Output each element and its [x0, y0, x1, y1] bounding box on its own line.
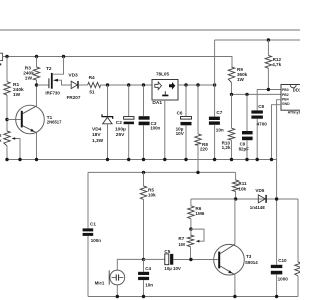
resistor R11	[232, 180, 238, 192]
wire DA1 output 5V	[178, 84, 215, 86]
svg-text:T2: T2	[46, 66, 52, 72]
svg-text:C6: C6	[177, 110, 183, 115]
rail junction (7,159.5)	[5, 158, 8, 161]
svg-text:C1: C1	[90, 221, 96, 226]
svg-text:25V: 25V	[116, 132, 125, 138]
wire C1 to bottom rail	[87, 236, 89, 297]
node junction (198,85)	[196, 83, 199, 86]
transistor T1 base bar	[21, 111, 23, 128]
wire T3 collector riser	[234, 199, 236, 244]
DA1 input arrow (hollow)	[155, 82, 162, 90]
rail junction (117.3,296.5)	[116, 295, 119, 298]
zener diode VD4	[107, 85, 109, 116]
svg-text:100n: 100n	[150, 126, 160, 131]
resistor R2 (trimmer, label cut at edge)	[4, 131, 10, 146]
capacitor C9	[246, 94, 248, 131]
wire R4 to DA1 input	[101, 84, 152, 86]
wire T2 source	[58, 80, 72, 85]
transistor T2 channel bar	[51, 73, 53, 89]
svg-text:18V: 18V	[92, 132, 101, 138]
transistor T3 emitter lead	[220, 266, 235, 275]
wire mains line to R9	[3, 57, 232, 68]
C3 plates	[139, 116, 150, 120]
wire PB4 pin down to C10	[277, 100, 281, 265]
node junction (235.6,199)	[234, 197, 237, 200]
C2 bottom plate	[124, 122, 134, 125]
wire C5 to base node	[173, 259, 218, 261]
svg-text:S9014: S9014	[245, 260, 258, 265]
svg-text:68k: 68k	[0, 138, 2, 144]
svg-text:1M6: 1M6	[195, 211, 204, 216]
svg-text:10k: 10k	[148, 192, 156, 197]
wire 5V top distribution	[215, 39, 300, 41]
svg-text:R1: R1	[13, 82, 19, 88]
wire T1 base lead	[7, 119, 21, 121]
capacitor C5 (electrolytic)	[165, 254, 169, 265]
node junction (276.6,199)	[275, 197, 278, 200]
resistor R1	[4, 82, 10, 95]
svg-text:51: 51	[89, 90, 95, 96]
terminal X1 (cut at left edge)	[0, 53, 3, 60]
wire C8 top to PB0	[257, 90, 281, 111]
microphone Mic1	[110, 270, 125, 285]
svg-text:240k: 240k	[13, 87, 24, 93]
wire C3 to rail	[143, 125, 145, 159]
svg-text:10µ 10V: 10µ 10V	[164, 266, 181, 271]
transistor T2 gate bar	[48, 78, 49, 88]
svg-text:10V: 10V	[176, 131, 185, 136]
capacitor C10	[271, 265, 283, 268]
svg-text:R3: R3	[25, 66, 31, 72]
svg-text:GND: GND	[282, 102, 290, 106]
svg-text:VD3: VD3	[68, 72, 78, 78]
svg-text:ATtiny13A: ATtiny13A	[288, 110, 300, 114]
transistor T3 base bar	[218, 252, 220, 269]
node junction (36.5,56.5)	[35, 55, 38, 58]
transistor T1 emitter lead	[23, 126, 37, 133]
wire center column x=36.5	[36, 57, 38, 160]
wire C7 to rail	[214, 125, 216, 160]
resistor R10	[231, 94, 233, 128]
svg-text:C2: C2	[116, 120, 122, 126]
transistor T3 circle	[214, 244, 245, 275]
node junction (268.4,89.5)	[267, 88, 270, 91]
capacitor C2 (electrolytic)	[128, 85, 130, 116]
capacitor C3	[143, 85, 145, 116]
ground rail	[7, 159, 277, 161]
resistor R9	[228, 67, 234, 83]
svg-text:1000: 1000	[278, 277, 289, 282]
diode VD3	[71, 81, 77, 88]
wire C8 bottom to rail	[256, 119, 258, 160]
rail junction (186,159.5)	[184, 158, 187, 161]
node junction (231.5,94.4)	[230, 93, 233, 96]
svg-text:2N6517: 2N6517	[47, 120, 62, 125]
rail junction (276.6,296.5)	[275, 295, 278, 298]
rail junction (107.5,159.5)	[106, 158, 109, 161]
voltage regulator DA1 box	[152, 80, 178, 101]
R2 wiper arrowhead	[12, 137, 16, 140]
svg-text:1,3W: 1,3W	[92, 138, 104, 144]
svg-text:100µ: 100µ	[115, 126, 126, 132]
Mic1 left bar	[108, 270, 110, 284]
rail junction (164.8,159.5)	[163, 158, 166, 161]
node junction gate (36.5,85)	[35, 83, 38, 86]
DA1 output arrow (solid)	[169, 82, 175, 90]
transistor T1 circle	[16, 105, 45, 134]
rail junction (20,159.5)	[18, 158, 21, 161]
svg-text:T3: T3	[246, 254, 252, 259]
T1 emitter arrowhead	[30, 129, 34, 132]
wire left column x=7	[6, 57, 8, 160]
rail junction (143.5,296.5)	[142, 295, 145, 298]
wire R8 to amp rail (crosses ground rail)	[197, 145, 199, 172]
rail junction (231.5,159.5)	[230, 158, 233, 161]
VD4 triangle	[103, 117, 113, 124]
svg-text:VD5: VD5	[255, 188, 264, 193]
svg-text:1W: 1W	[237, 77, 245, 82]
svg-text:FR207: FR207	[67, 95, 81, 100]
capacitor C6 (electrolytic)	[185, 85, 187, 116]
wire Mic1 top to signal node	[117, 259, 143, 270]
wire collector node line y=199	[191, 198, 298, 200]
svg-text:PB0: PB0	[282, 88, 289, 92]
node junction (268.4,40)	[267, 38, 270, 41]
bottom ground rail	[88, 296, 298, 298]
svg-text:10n: 10n	[216, 127, 224, 132]
node junction (128.7,85)	[127, 83, 130, 86]
node junction (143.5,172.4)	[142, 171, 145, 174]
svg-text:1W: 1W	[25, 76, 33, 82]
rail junction (234.9,296.5)	[233, 295, 236, 298]
svg-text:DA1: DA1	[152, 100, 162, 106]
terminal X1 label (cut)	[0, 63, 1, 65]
diode VD5	[258, 195, 265, 203]
wire C6 to rail	[185, 125, 187, 159]
wire amp rail left drop to C1	[87, 172, 89, 228]
wire T2 gate lead	[37, 84, 49, 86]
amp supply rail	[88, 171, 236, 173]
svg-text:IRF730: IRF730	[45, 90, 60, 95]
svg-text:C4: C4	[145, 266, 151, 271]
svg-text:DD1: DD1	[293, 87, 300, 92]
R7 wiper arrowhead	[196, 240, 200, 243]
transistor T1 collector lead	[23, 106, 37, 114]
node junction (143.5,85)	[142, 83, 145, 86]
wire top mains rail	[0, 29, 300, 31]
svg-text:10k: 10k	[238, 186, 246, 191]
wire T2 drain	[53, 57, 64, 75]
svg-text:C10: C10	[278, 258, 287, 263]
node junction (63.5,56.5)	[62, 55, 65, 58]
capacitor C8	[251, 110, 263, 113]
resistor R6	[188, 206, 194, 219]
rail junction (143.5,159.5)	[142, 158, 145, 161]
T2 source arrowhead	[53, 79, 58, 82]
wire VD4 to ground rail	[107, 124, 109, 160]
svg-text:78L05: 78L05	[156, 72, 169, 77]
wire PB2 line	[232, 93, 282, 95]
rail junction (271.5,159.5)	[270, 158, 273, 161]
rail junction (257.2,159.5)	[256, 158, 259, 161]
wire amp rail right drop to R11	[235, 172, 237, 180]
wire VD3 to R4	[79, 84, 88, 86]
wire GND pin	[272, 105, 282, 160]
C6 top plate (hollow)	[181, 117, 192, 120]
rail junction (128.7,159.5)	[127, 158, 130, 161]
wire signal to C5	[144, 258, 165, 260]
svg-text:C8: C8	[258, 104, 264, 109]
node junction (7,56.5)	[5, 55, 8, 58]
Mic1 inner plates	[112, 277, 124, 279]
svg-text:1M: 1M	[178, 242, 185, 247]
svg-text:1n4148: 1n4148	[250, 205, 265, 210]
wire DA1 ground lead	[164, 100, 166, 160]
svg-text:R2: R2	[0, 133, 2, 139]
svg-text:100n: 100n	[91, 238, 102, 243]
node junction (186,85)	[184, 83, 187, 86]
svg-text:C5: C5	[164, 249, 170, 254]
wire C2 to rail	[128, 124, 130, 159]
C2 top plate (hollow)	[124, 117, 134, 120]
svg-text:82pF: 82pF	[239, 147, 250, 152]
resistor R12	[267, 40, 269, 55]
wire R7 wiper loop	[191, 229, 204, 241]
resistor R13 (cut at right edge)	[297, 199, 299, 262]
wire Mic1 bottom	[116, 285, 118, 297]
DD1 notch	[290, 85, 296, 88]
resistor R8	[197, 85, 199, 134]
svg-text:1,2k: 1,2k	[222, 145, 231, 150]
DA1 internal ground symbol	[164, 91, 166, 94]
node junction (190.9,259.5)	[189, 258, 192, 261]
svg-text:Mic1: Mic1	[95, 280, 105, 285]
VD5 cathode bar	[265, 195, 266, 203]
node junction (143.5,259.4)	[142, 258, 145, 261]
svg-text:4700: 4700	[257, 121, 268, 126]
resistor R3	[33, 67, 39, 80]
svg-text:220: 220	[200, 146, 208, 151]
node junction (190.9,229.1)	[189, 227, 192, 230]
resistor R7 (trimmer)	[190, 229, 192, 235]
resistor R4	[88, 82, 101, 87]
capacitor C4	[143, 259, 145, 271]
node junction T1 base (7,119.5)	[5, 118, 8, 121]
svg-text:PB4: PB4	[282, 98, 289, 102]
wire R2 wiper	[15, 139, 20, 160]
wire R6 top	[190, 199, 192, 206]
capacitor C1	[83, 228, 94, 231]
node junction (198,172.4)	[196, 171, 199, 174]
T3 emitter arrowhead	[228, 270, 232, 273]
svg-text:10n: 10n	[145, 282, 153, 287]
svg-text:C7: C7	[216, 110, 222, 115]
svg-text:R7: R7	[178, 236, 184, 241]
rail junction (36.5,159.5)	[35, 158, 38, 161]
IC DD1 box (cut at right edge)	[281, 85, 302, 111]
C6 bottom plate	[181, 122, 192, 125]
rail junction (214.6,159.5)	[213, 158, 216, 161]
wire R9 to PB2 node	[231, 83, 233, 95]
svg-text:R4: R4	[89, 75, 95, 81]
wire T3 emitter drop	[234, 275, 236, 297]
VD4 cathode bar with hooks	[102, 114, 113, 119]
node junction (247,94.4)	[245, 93, 248, 96]
VD3 cathode bar	[77, 81, 78, 89]
wire +5V riser x=214.6	[214, 40, 216, 117]
svg-text:PB2: PB2	[282, 93, 289, 97]
rail junction (247,159.5)	[245, 158, 248, 161]
svg-text:1W: 1W	[13, 92, 21, 98]
capacitor C7	[209, 117, 220, 120]
node junction (214.6,85)	[213, 83, 216, 86]
node junction (107.5,85)	[106, 83, 109, 86]
svg-text:VD4: VD4	[92, 126, 102, 132]
resistor R5	[143, 172, 145, 186]
svg-text:4,7k: 4,7k	[272, 62, 281, 67]
transistor T3 collector lead	[220, 244, 235, 253]
